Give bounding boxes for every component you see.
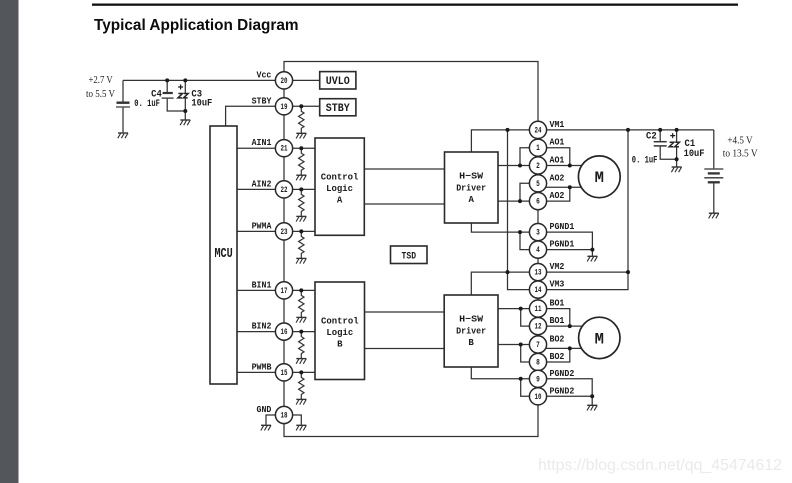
battery V2 (4.5V-13.5V motor supply) bbox=[704, 130, 723, 213]
svg-text:A: A bbox=[337, 194, 343, 205]
ground (GND pin left) bbox=[261, 425, 271, 430]
wire MCU to BIN1 bbox=[237, 289, 284, 291]
svg-text:BO2: BO2 bbox=[550, 351, 565, 362]
wire MCU to AIN1 bbox=[237, 147, 284, 149]
svg-text:PGND2: PGND2 bbox=[550, 368, 575, 379]
wire PGND1 pin 3 to external ground bbox=[538, 232, 592, 250]
svg-text:3: 3 bbox=[536, 230, 540, 238]
svg-text:0. 1uF: 0. 1uF bbox=[632, 156, 658, 167]
pull-down resistor at pin 19 bbox=[299, 106, 304, 133]
wire Control Logic B to H-SW Driver B (1) bbox=[365, 311, 445, 313]
wire VM1 to motor supply rail (+4.5V node) bbox=[538, 129, 714, 131]
pin 13 (VM2) bbox=[529, 264, 546, 281]
wire PGND2 pin 10 to external ground bbox=[538, 396, 592, 405]
svg-text:17: 17 bbox=[281, 288, 288, 296]
H-SW Driver B block bbox=[444, 295, 498, 367]
wire pin14 inner loop VM3 to VM2 bbox=[508, 272, 539, 290]
wire VM2 pin to H-SW Driver B supply bbox=[471, 272, 538, 295]
wire PGND2 pin 9 to external ground bbox=[538, 379, 592, 397]
pin 7 (BO2) bbox=[529, 336, 546, 353]
wire H-SW Driver B to BO1 pin 11 bbox=[498, 308, 538, 310]
TSD block bbox=[391, 246, 428, 264]
wire MCU to BIN2 bbox=[237, 331, 284, 333]
svg-text:BO2: BO2 bbox=[550, 334, 565, 345]
svg-text:UVLO: UVLO bbox=[326, 76, 350, 88]
capacitor C1 (10uF electrolytic) bbox=[669, 130, 679, 167]
wire MCU to AIN2 bbox=[237, 188, 284, 190]
pull-down resistor at pin 16 bbox=[299, 332, 304, 359]
wire pin19 to STBY block bbox=[284, 105, 320, 107]
svg-text:14: 14 bbox=[535, 287, 542, 295]
wire H-SW Driver B to BO2 pin 7 bbox=[498, 344, 538, 346]
svg-text:to 5.5 V: to 5.5 V bbox=[86, 89, 115, 100]
wire pin6 outer loop to AO2 output bbox=[538, 187, 570, 201]
wire pin1 inner loop to AO1 net bbox=[520, 148, 538, 166]
wire internal VM rail VM1 to VM2 bbox=[507, 130, 509, 272]
wire pin4 inner loop to PGND1 net bbox=[520, 232, 538, 250]
svg-text:1: 1 bbox=[536, 145, 540, 153]
wire Vcc supply rail (+2.7V node) bbox=[123, 79, 284, 81]
wire pin8 inner loop to BO2 net bbox=[521, 345, 538, 363]
wire AIN2 to Control Logic A bbox=[284, 188, 315, 190]
wire BO1 output to motor B bbox=[538, 325, 599, 327]
pin 2 (AO1) bbox=[529, 157, 546, 174]
svg-text:VM2: VM2 bbox=[550, 261, 565, 272]
svg-text:10uF: 10uF bbox=[191, 98, 212, 109]
pull-down resistor at pin 17 bbox=[299, 290, 304, 317]
svg-text:PWMB: PWMB bbox=[252, 361, 272, 372]
capacitor C3 (10uF electrolytic) bbox=[178, 80, 188, 119]
svg-text:M: M bbox=[595, 330, 604, 348]
wire pin8 outer loop to BO2 output bbox=[538, 348, 570, 362]
pull-down resistor at pin 15 bbox=[299, 372, 304, 399]
ground (V1 battery) bbox=[118, 133, 128, 138]
pin 22 (AIN2) bbox=[275, 181, 292, 198]
svg-text:8: 8 bbox=[536, 360, 540, 368]
wire pin1 outer loop to AO1 output bbox=[538, 148, 570, 166]
svg-text:STBY: STBY bbox=[252, 95, 272, 106]
svg-text:AIN2: AIN2 bbox=[252, 178, 272, 189]
IC body outline bbox=[284, 62, 538, 437]
wire pin20 to UVLO block bbox=[284, 79, 320, 81]
pin 18 (GND) bbox=[275, 406, 292, 423]
wire GND pin left ground branch bbox=[266, 415, 284, 425]
wire external VM rail to VM2 bbox=[627, 130, 629, 272]
wire AIN1 to Control Logic A bbox=[284, 147, 315, 149]
ground (pin 22 pull-down) bbox=[296, 216, 306, 221]
ground (V2 battery) bbox=[709, 213, 719, 218]
ground (pin 17 pull-down) bbox=[296, 317, 306, 322]
svg-text:BO1: BO1 bbox=[550, 298, 565, 309]
pin 5 (AO2) bbox=[529, 175, 546, 192]
svg-text:VM3: VM3 bbox=[550, 279, 565, 290]
wire AO2 output to motor A bbox=[538, 186, 599, 188]
pin 20 (VCC) bbox=[275, 72, 292, 89]
pin 4 (PGND1) bbox=[529, 241, 546, 258]
capacitor C2 (0.1uF) bbox=[654, 130, 677, 159]
pin 16 (BIN2) bbox=[275, 323, 292, 340]
pull-down resistor at pin 23 bbox=[299, 231, 304, 258]
svg-text:24: 24 bbox=[535, 127, 542, 135]
svg-text:18: 18 bbox=[281, 413, 288, 421]
pin 15 (PWMB) bbox=[275, 364, 292, 381]
svg-text:21: 21 bbox=[281, 146, 288, 154]
svg-text:AO1: AO1 bbox=[550, 137, 565, 148]
motor M (channel B) bbox=[579, 317, 620, 358]
svg-text:C2: C2 bbox=[646, 132, 657, 143]
svg-text:AO2: AO2 bbox=[550, 190, 565, 201]
svg-text:H−SW: H−SW bbox=[459, 171, 483, 182]
pin 3 (PGND1) bbox=[529, 224, 546, 241]
svg-text:A: A bbox=[469, 194, 475, 205]
svg-text:4: 4 bbox=[536, 247, 540, 255]
svg-text:+2.7 V: +2.7 V bbox=[89, 75, 114, 86]
capacitor C4 (0.1uF) bbox=[162, 80, 186, 111]
svg-text:23: 23 bbox=[281, 229, 288, 237]
pin 8 (BO2) bbox=[529, 353, 546, 370]
pin 23 (PWMA) bbox=[275, 223, 292, 240]
ground (pin 23 pull-down) bbox=[296, 258, 306, 263]
Control Logic B block bbox=[315, 282, 365, 380]
svg-text:BO1: BO1 bbox=[550, 315, 565, 326]
pin 9 (PGND2) bbox=[529, 370, 546, 387]
svg-text:Control: Control bbox=[321, 171, 359, 182]
pin 6 (AO2) bbox=[529, 193, 546, 210]
Control Logic A block bbox=[315, 138, 364, 235]
svg-text:10uF: 10uF bbox=[684, 149, 705, 160]
pull-down resistor at pin 22 bbox=[299, 189, 304, 216]
wire H-SW Driver A ground to PGND1 pin 3 bbox=[471, 223, 538, 232]
svg-text:Typical Application Diagram: Typical Application Diagram bbox=[94, 17, 299, 34]
wire VM2 pin to external rail bbox=[538, 271, 628, 273]
pin 1 (AO1) bbox=[529, 139, 546, 156]
MCU block bbox=[210, 126, 237, 384]
wire H-SW Driver B ground to PGND2 pin 9 bbox=[471, 367, 538, 379]
ground (C3/C4 decoupling) bbox=[180, 120, 190, 125]
svg-text:AIN1: AIN1 bbox=[252, 137, 272, 148]
wire BO2 output to motor B bbox=[538, 347, 599, 349]
pin 17 (BIN1) bbox=[275, 282, 292, 299]
svg-text:0. 1uF: 0. 1uF bbox=[134, 99, 160, 110]
wire H-SW Driver A to AO2 pin 6 bbox=[498, 200, 538, 202]
svg-text:12: 12 bbox=[535, 324, 542, 332]
wire PWMA to Control Logic A bbox=[284, 230, 315, 232]
svg-text:19: 19 bbox=[281, 104, 288, 112]
pin 10 (PGND2) bbox=[529, 388, 546, 405]
wire STBY pin to MCU bbox=[226, 106, 284, 126]
svg-text:PGND2: PGND2 bbox=[550, 385, 575, 396]
pin 21 (AIN1) bbox=[275, 140, 292, 157]
svg-text:B: B bbox=[468, 337, 474, 348]
wire Control Logic A to H-SW Driver A (1) bbox=[364, 168, 444, 170]
svg-text:Driver: Driver bbox=[456, 325, 486, 336]
pin 24 (VM1) bbox=[529, 121, 546, 138]
svg-text:15: 15 bbox=[281, 370, 288, 378]
svg-text:AO2: AO2 bbox=[550, 172, 565, 183]
svg-text:PGND1: PGND1 bbox=[550, 239, 575, 250]
wire pin10 inner loop to PGND2 net bbox=[521, 379, 538, 397]
wire BIN1 to Control Logic B bbox=[284, 289, 315, 291]
svg-text:Control: Control bbox=[321, 315, 359, 326]
ground (GND pin right) bbox=[296, 425, 306, 430]
motor M (channel A) bbox=[578, 156, 620, 198]
pin 14 (VM3) bbox=[529, 281, 546, 298]
wire AO1 output to motor A bbox=[538, 165, 599, 167]
svg-text:13: 13 bbox=[535, 270, 542, 278]
svg-text:Vcc: Vcc bbox=[257, 69, 272, 80]
svg-text:+4.5 V: +4.5 V bbox=[727, 136, 753, 147]
svg-text:7: 7 bbox=[536, 342, 540, 350]
svg-text:2: 2 bbox=[536, 163, 540, 171]
svg-text:VM1: VM1 bbox=[550, 119, 565, 130]
wire MCU to PWMA bbox=[237, 230, 284, 232]
ground (pin 16 pull-down) bbox=[296, 359, 306, 364]
wire Control Logic A to H-SW Driver A (2) bbox=[364, 203, 444, 205]
wire PGND1 pin 4 to external ground bbox=[538, 250, 592, 257]
H-SW Driver A block bbox=[445, 152, 499, 223]
svg-text:MCU: MCU bbox=[214, 246, 232, 262]
wire Control Logic B to H-SW Driver B (2) bbox=[365, 348, 445, 350]
wire GND pin right ground branch bbox=[284, 415, 301, 425]
svg-text:22: 22 bbox=[281, 187, 288, 195]
wire pin11 outer loop to BO1 output bbox=[538, 309, 570, 327]
pull-down resistor at pin 21 bbox=[299, 148, 304, 175]
wire pin12 inner loop to BO1 net bbox=[521, 309, 538, 327]
wire H-SW Driver A to AO1 pin 2 bbox=[498, 165, 538, 167]
svg-text:GND: GND bbox=[257, 404, 272, 415]
wire PWMB to Control Logic B bbox=[284, 371, 315, 373]
svg-text:AO1: AO1 bbox=[550, 155, 565, 166]
svg-text:TSD: TSD bbox=[402, 250, 417, 262]
svg-text:BIN2: BIN2 bbox=[252, 321, 272, 332]
svg-text:20: 20 bbox=[281, 78, 288, 86]
wire MCU to PWMB bbox=[237, 371, 284, 373]
svg-text:H−SW: H−SW bbox=[459, 314, 483, 325]
svg-text:Logic: Logic bbox=[326, 327, 353, 338]
STBY block bbox=[320, 99, 356, 116]
pin 12 (BO1) bbox=[529, 318, 546, 335]
wire pin5 inner loop to AO2 net bbox=[520, 183, 538, 201]
svg-text:5: 5 bbox=[536, 181, 540, 189]
svg-text:9: 9 bbox=[536, 376, 540, 384]
svg-text:6: 6 bbox=[536, 199, 540, 207]
wire pin14 outer loop VM3 to rail bbox=[538, 272, 628, 290]
svg-text:Logic: Logic bbox=[326, 183, 353, 194]
ground (pin 15 pull-down) bbox=[296, 399, 306, 404]
wire BIN2 to Control Logic B bbox=[284, 331, 315, 333]
svg-text:BIN1: BIN1 bbox=[252, 279, 272, 290]
svg-text:STBY: STBY bbox=[326, 103, 350, 115]
svg-text:PWMA: PWMA bbox=[252, 220, 272, 231]
UVLO block bbox=[320, 72, 356, 89]
svg-text:Driver: Driver bbox=[456, 182, 486, 193]
svg-text:B: B bbox=[337, 338, 343, 349]
ground (pin 21 pull-down) bbox=[296, 175, 306, 180]
ground (pin 19 pull-down) bbox=[296, 133, 306, 138]
pin 19 (STBY) bbox=[275, 98, 292, 115]
svg-text:https://blog.csdn.net/qq_45474: https://blog.csdn.net/qq_45474612 bbox=[538, 457, 782, 474]
ground (C1/C2 decoupling) bbox=[671, 167, 681, 172]
wire VM1 pin to H-SW Driver A supply bbox=[471, 130, 538, 152]
battery V1 (2.7V-5.5V logic supply) bbox=[116, 80, 130, 132]
svg-text:PGND1: PGND1 bbox=[550, 221, 575, 232]
svg-text:M: M bbox=[595, 169, 604, 187]
svg-text:10: 10 bbox=[535, 394, 542, 402]
ground (PGND1) bbox=[587, 256, 597, 261]
svg-text:to 13.5 V: to 13.5 V bbox=[723, 148, 758, 159]
pin 11 (BO1) bbox=[529, 300, 546, 317]
svg-text:16: 16 bbox=[281, 329, 288, 337]
ground (PGND2) bbox=[587, 405, 597, 410]
svg-text:11: 11 bbox=[535, 306, 542, 314]
